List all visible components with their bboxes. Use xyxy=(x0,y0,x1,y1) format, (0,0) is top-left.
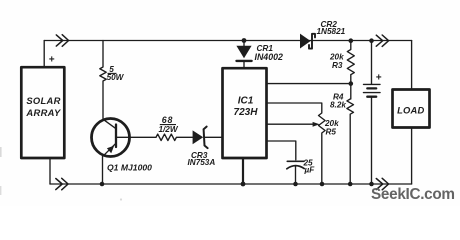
junction dot emitter bottom xyxy=(100,182,105,187)
wire top bus xyxy=(44,40,411,42)
wire bottom bus xyxy=(50,183,412,185)
diode CR2 1N5821 xyxy=(309,34,315,49)
solar array box xyxy=(21,67,64,158)
svg-text:R5: R5 xyxy=(326,127,337,136)
capacitor C 25uF xyxy=(267,141,296,160)
svg-text:+: + xyxy=(376,73,382,84)
potentiometer R5 20k xyxy=(267,103,326,184)
svg-text:Q1 MJ1000: Q1 MJ1000 xyxy=(107,163,152,173)
svg-text:R3: R3 xyxy=(332,61,343,70)
connector bottom left xyxy=(56,178,68,190)
svg-text:68: 68 xyxy=(162,115,173,125)
svg-text:+: + xyxy=(49,55,55,66)
svg-text:50W: 50W xyxy=(107,73,125,82)
svg-text:IN753A: IN753A xyxy=(188,158,216,167)
diode CR1 1N4002 xyxy=(243,41,245,46)
transistor Q1 emitter arrow xyxy=(107,146,114,154)
svg-text:723H: 723H xyxy=(234,107,259,118)
svg-text:ARRAY: ARRAY xyxy=(25,107,61,118)
junction dot IC1 bottom xyxy=(241,182,246,187)
resistor R 5ohm 50W xyxy=(100,41,106,119)
resistor R3 20k xyxy=(347,41,354,84)
connector top left xyxy=(56,35,68,47)
fraction bar 68 xyxy=(160,124,176,126)
fraction bar 5 50W xyxy=(108,72,117,74)
junction dot R3 top xyxy=(349,38,354,43)
svg-text:SeekIC.com: SeekIC.com xyxy=(371,186,455,203)
wire solar array plus lead xyxy=(43,41,45,68)
potentiometer R5 wiper arrow xyxy=(313,122,320,127)
svg-text:8.2k: 8.2k xyxy=(330,100,346,109)
wire load bottom lead xyxy=(411,128,413,185)
zener diode CR3 1N753A xyxy=(205,136,223,138)
svg-text:1/2W: 1/2W xyxy=(158,125,178,134)
wire base lead xyxy=(130,136,156,138)
resistor R4 8.2k xyxy=(347,84,354,184)
junction dot R4 bottom xyxy=(348,182,353,187)
svg-text:SOLAR: SOLAR xyxy=(26,95,60,106)
junction dot R3 R4 xyxy=(349,81,354,86)
resistor R 68ohm 1/2W xyxy=(156,134,193,140)
svg-text:LOAD: LOAD xyxy=(397,105,424,116)
connector bottom right xyxy=(376,178,388,190)
junction dot CR1 top xyxy=(242,38,247,43)
diode CR1 body xyxy=(236,46,251,58)
connector top right xyxy=(376,35,388,46)
svg-text:IN4002: IN4002 xyxy=(255,52,283,62)
junction dot battery bottom xyxy=(369,182,374,187)
load box xyxy=(393,90,430,128)
wire IC1 bottom lead xyxy=(242,158,244,184)
svg-text:1N5821: 1N5821 xyxy=(317,27,346,36)
wire solar array minus lead xyxy=(49,158,51,184)
wire R5 wiper xyxy=(267,123,314,125)
junction dot battery top xyxy=(369,38,374,43)
wire IC1 to R3 R4 node xyxy=(267,83,351,85)
svg-text:µF: µF xyxy=(304,166,316,175)
transistor Q1 MJ1000 xyxy=(92,119,130,157)
wire right drop to load xyxy=(411,41,413,90)
IC op-amp regulator U IC1 723H box xyxy=(223,68,267,158)
diode CR2 body xyxy=(300,34,311,49)
zener diode CR3 body xyxy=(193,130,204,144)
battery B1 xyxy=(371,41,373,84)
junction dot R5 bottom xyxy=(320,182,325,187)
svg-text:IC1: IC1 xyxy=(238,96,254,107)
junction dot capacitor bottom xyxy=(293,182,298,187)
